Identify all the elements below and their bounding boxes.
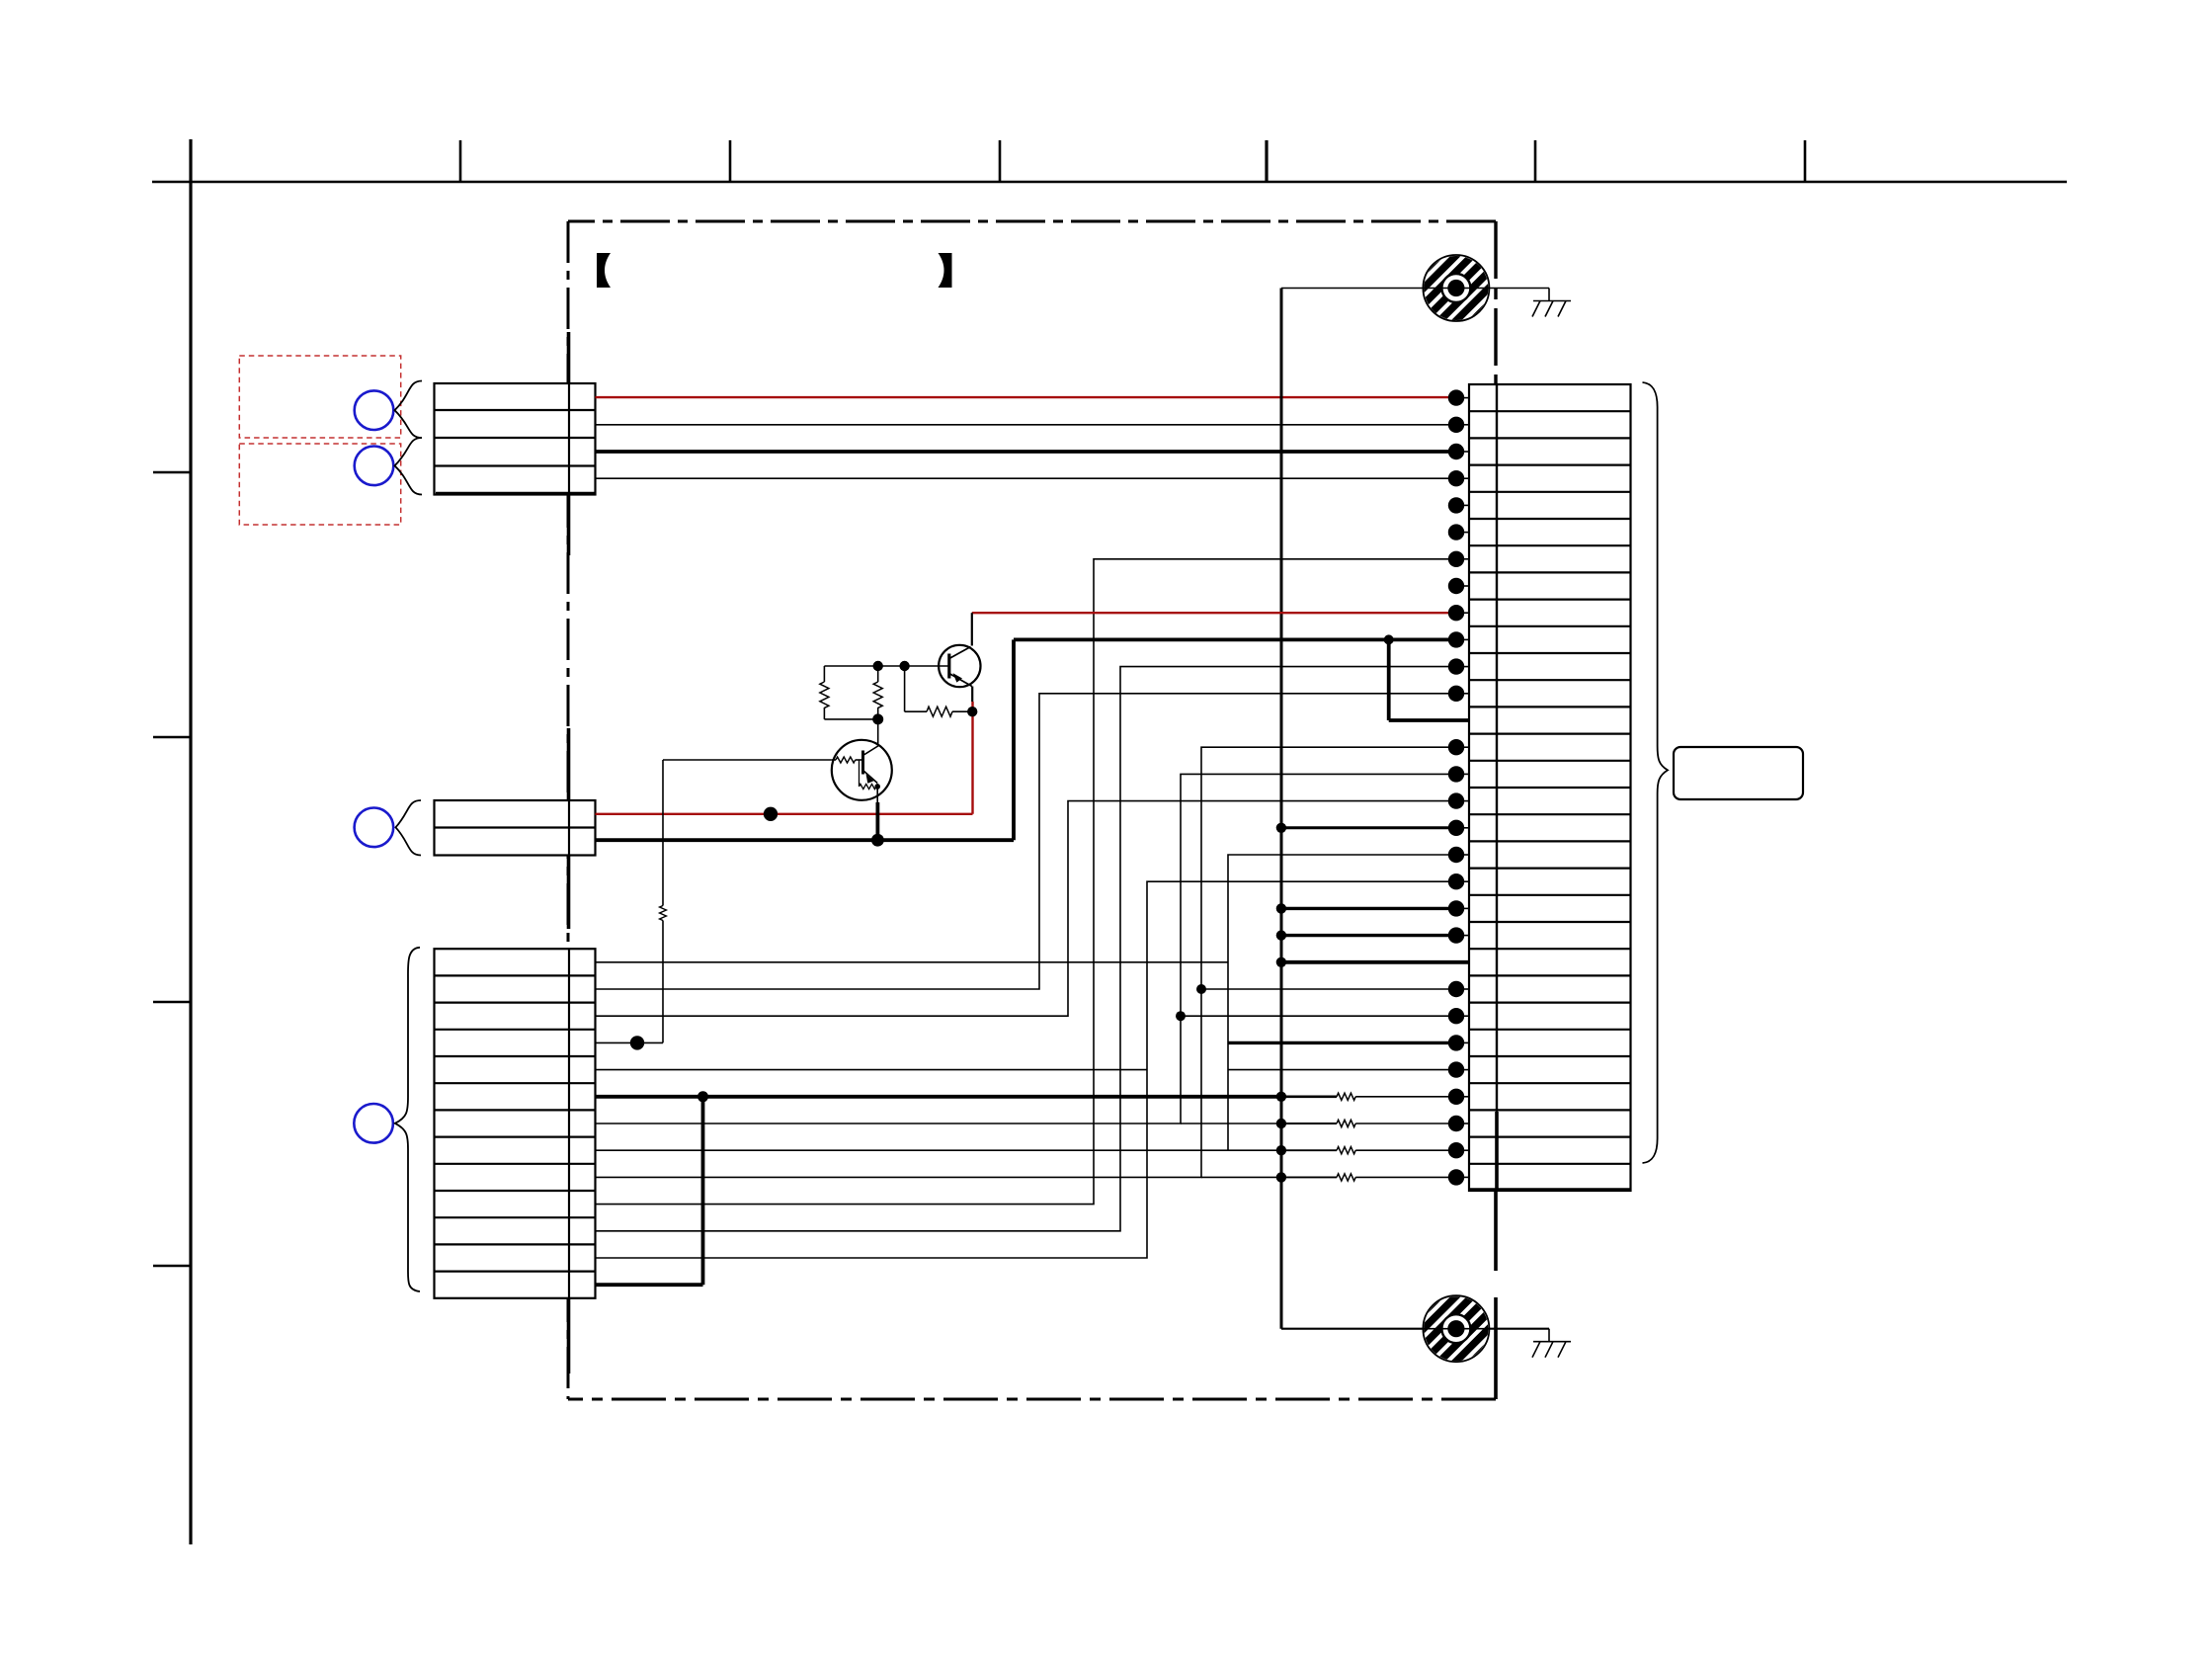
wire CN3 pin7 to bus stub [1181,1123,1281,1124]
wire CN4 pin11 to CN3 pin11 L-shape [596,667,1457,1231]
node junction CN3 pin6 branch [697,1091,708,1102]
pin 29 CN4 [1448,1142,1469,1158]
wire thick branch to CN4 pin13 [1389,639,1469,720]
ruler tick top 1 [459,140,462,182]
transistor Q1 [939,645,980,687]
resistor R6 lead and body [1281,1120,1456,1126]
resistor R5 lead and body [1281,1093,1456,1100]
wire CN4 pin25 tap thick [1228,1041,1456,1044]
wire CN3 pin9 to bus stub [1201,1176,1281,1178]
node junction pin24 tap [1176,1011,1186,1021]
pin 30 CN4 [1448,1169,1469,1185]
node bus junction pin20 [1276,903,1286,913]
pin 20 CN4 [1448,900,1469,916]
node bus junction R8 [1276,1172,1286,1182]
title bracket right [939,253,952,288]
wire CN4 pin23 tap [1201,988,1456,990]
pin 5 CN4 [1448,497,1469,513]
wire CN4 pin10 thick [1014,638,1456,642]
resistor R4 vertical small [660,906,667,921]
pin 14 CN4 [1448,739,1469,755]
wire thick riser to pin10 row [1012,639,1016,840]
title bracket left [597,253,611,288]
node bus junction R6 [1276,1119,1286,1128]
wire Q1 collector red to CN4 pin9 [972,612,1456,614]
pin 1 CN4 [1448,389,1469,405]
ruler tick top 2 [729,140,732,182]
node bus junction R7 [1276,1145,1286,1155]
wire CN2 pin2 thick [596,838,1015,842]
resistor R7 lead and body [1281,1147,1456,1154]
connector ref circle A [355,390,394,430]
wire CN4 pin19 to CN3 pin12 L-shape [596,881,1457,1258]
ruler tick top 3 [999,140,1002,182]
ground symbol bottom [1532,1329,1571,1358]
transistor Q2 digital [832,740,892,800]
node junction Q2 collector node [872,713,883,724]
node big junction on red wire [764,807,778,821]
wire R1 R2 bottom link [824,718,877,720]
node junction base branch [899,661,909,671]
pin 15 CN4 [1448,766,1469,782]
node big junction CN3 pin4 [630,1036,644,1049]
wire bus to bottom frame ground [1281,1328,1549,1330]
pin 21 CN4 [1448,927,1469,943]
pin 18 CN4 [1448,847,1469,863]
resistor R3 base series [905,666,973,716]
board outline top dash-dot border [568,220,1496,223]
brace for circle C [396,800,422,856]
board outline left border solid segment below CN2 [567,854,571,929]
red highlight dashed box 1 [239,356,400,438]
wire bus to top frame ground [1281,288,1549,290]
wire CN4 pin12 to CN3 pin2 L-shape [596,694,1457,989]
node bus junction pin17 [1276,823,1286,833]
board outline left border solid segment below CN3 [567,1296,571,1373]
red highlight dashed box 2 [239,444,400,525]
wire Q2 emitter drop thin [876,784,878,802]
wire Q1 emitter black segment [971,687,973,703]
connector CN4 box (right) [1469,384,1631,1191]
connector ref circle C [355,808,394,848]
pin 6 CN4 [1448,524,1469,540]
top ruler line [152,181,2067,183]
board outline bottom dash-dot border [568,1398,1496,1401]
wire Q2 base to CN3 pin4 [663,760,832,906]
wire Q2 collector riser [877,719,879,744]
board outline left dash-dot border [567,221,570,1399]
left ruler line [189,139,192,1544]
wire CN1 pin2 to CN4 pin2 [596,424,1457,426]
node junction pin23 tap [1196,984,1206,994]
wire CN4 pin14 to CN3 pin9 L-shape [596,747,1457,1177]
wire CN4 pin20 thick from bus [1281,907,1456,910]
wire CN3 pin6 thick to bus [596,1095,1281,1099]
wire Q2 emitter drop thick [876,802,880,840]
brace for circle B [395,438,423,495]
board outline left border solid segment below CN1 [567,493,571,555]
connector CN3 box [435,949,596,1298]
resistor R2 vertical right [873,666,882,719]
pin 11 CN4 [1448,658,1469,674]
pin 27 CN4 [1448,1089,1469,1105]
wire CN4 pin16 to CN3 pin3 L-shape [596,801,1457,1017]
pin 7 CN4 [1448,551,1469,567]
board outline left border solid segment above CN2 [567,728,571,802]
wire CN2 pin1 red [596,813,973,815]
ruler tick top 4 [1265,140,1268,182]
pin 4 CN4 [1448,470,1469,486]
wire CN4 pin18 to CN3 pin8 L-shape [596,855,1457,1150]
node bus junction pin22 [1276,957,1286,967]
pin 12 CN4 [1448,686,1469,702]
resistor R1 vertical left [820,666,829,719]
wire CN4 pin21 thick from bus [1281,934,1456,937]
node bus junction R5 [1276,1092,1286,1102]
board outline right border upper segment [1494,221,1497,384]
frame ground screw B [1337,1275,1576,1383]
wire red vertical to Q1 emitter [971,702,973,814]
ruler tick left 4 [153,1265,191,1268]
wire CN4 pin17 thick from bus [1281,826,1456,829]
pin 8 CN4 [1448,578,1469,594]
wire CN3 pin1 into vertical [596,961,1229,963]
pin 23 CN4 [1448,981,1469,997]
pin 10 CN4 [1448,631,1469,647]
ruler tick left 1 [153,471,191,474]
connector CN2 box [435,800,596,856]
board outline left border solid segment above CN1 [567,332,571,385]
label box right [1674,747,1803,799]
wire CN3 pin8 to bus stub [1228,1149,1281,1151]
ruler tick top 6 [1804,140,1807,182]
wire CN4 pin24 tap [1181,1015,1456,1017]
ground symbol top [1532,289,1571,317]
node junction Q2 emitter on thick wire [871,834,884,847]
pin 2 CN4 [1448,417,1469,433]
wire CN1 pin3 thick to CN4 pin3 [596,450,1457,454]
brace right of CN4 [1643,382,1669,1163]
connector CN1 box [435,383,596,495]
wire CN4 pin22 thick from bus to connector [1281,960,1469,964]
pin 9 CN4 [1448,605,1469,621]
resistor R8 lead and body [1281,1174,1456,1181]
board outline right border lower segment [1494,1191,1498,1399]
pin 24 CN4 [1448,1008,1469,1024]
wire CN3 pin5 into vertical [596,1069,1148,1071]
wire CN4 pin7 to CN3 pin10 L-shape [596,559,1457,1205]
ruler tick left 2 [153,736,191,739]
node bus junction pin21 [1276,930,1286,940]
ground bus vertical [1280,289,1283,1329]
pin 17 CN4 [1448,820,1469,836]
frame ground screw T [1337,234,1576,343]
pin 25 CN4 [1448,1035,1469,1050]
pin 26 CN4 [1448,1061,1469,1077]
node junction base Rb [873,661,883,671]
connector ref circle D [354,1104,393,1143]
wire R4 to CN3 pin4 [596,921,664,1043]
wire CN3 pin13 thick branch [596,1097,703,1285]
ruler tick left 3 [153,1001,191,1004]
pin 3 CN4 [1448,444,1469,459]
pin 28 CN4 [1448,1116,1469,1131]
wire CN4 pin15 to CN3 pin7 L-shape [596,774,1457,1123]
node junction pin10/pin13 branch [1384,634,1394,644]
wire Q1 collector vertical [971,613,973,645]
wire CN4 pin26 tap [1228,1069,1456,1071]
wire CN1 pin4 to CN4 pin4 [596,477,1457,479]
pin 16 CN4 [1448,792,1469,808]
connector ref circle B [355,447,394,486]
pin 19 CN4 [1448,874,1469,889]
node junction on red vertical [967,707,977,716]
wire Q1 base node [824,665,948,667]
ruler tick top 5 [1534,140,1537,182]
wire CN1 pin1 red to CN4 pin1 [596,396,1457,398]
brace for circle A [395,381,423,439]
brace for circle D [395,948,420,1291]
